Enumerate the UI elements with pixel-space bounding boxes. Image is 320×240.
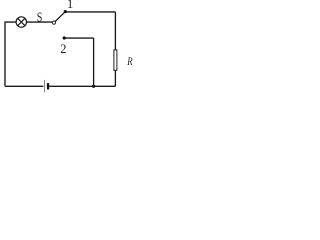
battery short thick plate: [47, 83, 49, 89]
svg-text:1: 1: [67, 0, 73, 11]
wire resistor to bottom: [114, 71, 116, 87]
svg-text:S: S: [37, 11, 43, 26]
battery long thin plate: [44, 80, 46, 93]
switch blade: [55, 12, 65, 22]
junction dot: [92, 85, 95, 88]
resistor R: [114, 50, 117, 70]
wire right side down to resistor: [114, 12, 116, 50]
wire top-left corner and left side: [5, 22, 16, 86]
contact 1 dot: [64, 10, 67, 13]
switch S pivot: [52, 21, 55, 24]
wire lamp to switch pivot: [27, 21, 53, 23]
wire contact 2 branch horizontal: [66, 37, 94, 39]
wire contact 1 to top-right corner: [67, 11, 116, 13]
svg-text:2: 2: [60, 42, 66, 56]
lamp: [16, 17, 26, 27]
svg-text:R: R: [126, 54, 133, 68]
wire battery to junction: [49, 85, 115, 87]
contact 2 dot: [63, 36, 66, 39]
wire contact 2 branch vertical: [93, 38, 95, 86]
wire bottom left to battery: [5, 85, 43, 87]
